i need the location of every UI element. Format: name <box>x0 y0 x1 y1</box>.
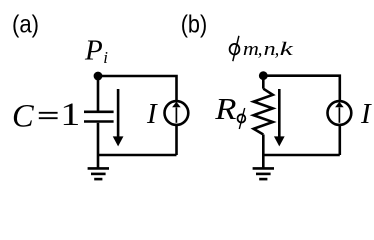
svg-text:(b): (b) <box>181 10 208 38</box>
svg-text:i: i <box>103 48 108 67</box>
svg-text:(a): (a) <box>12 10 39 38</box>
svg-text:k: k <box>280 39 294 59</box>
svg-text:C: C <box>12 98 34 134</box>
svg-text:,: , <box>275 40 280 60</box>
svg-text:m: m <box>243 40 259 60</box>
svg-text:,: , <box>258 40 263 60</box>
svg-text:P: P <box>84 34 103 66</box>
svg-text:I: I <box>146 98 158 130</box>
svg-text:1: 1 <box>60 96 80 133</box>
svg-text:R: R <box>214 93 236 127</box>
svg-text:I: I <box>360 98 372 130</box>
